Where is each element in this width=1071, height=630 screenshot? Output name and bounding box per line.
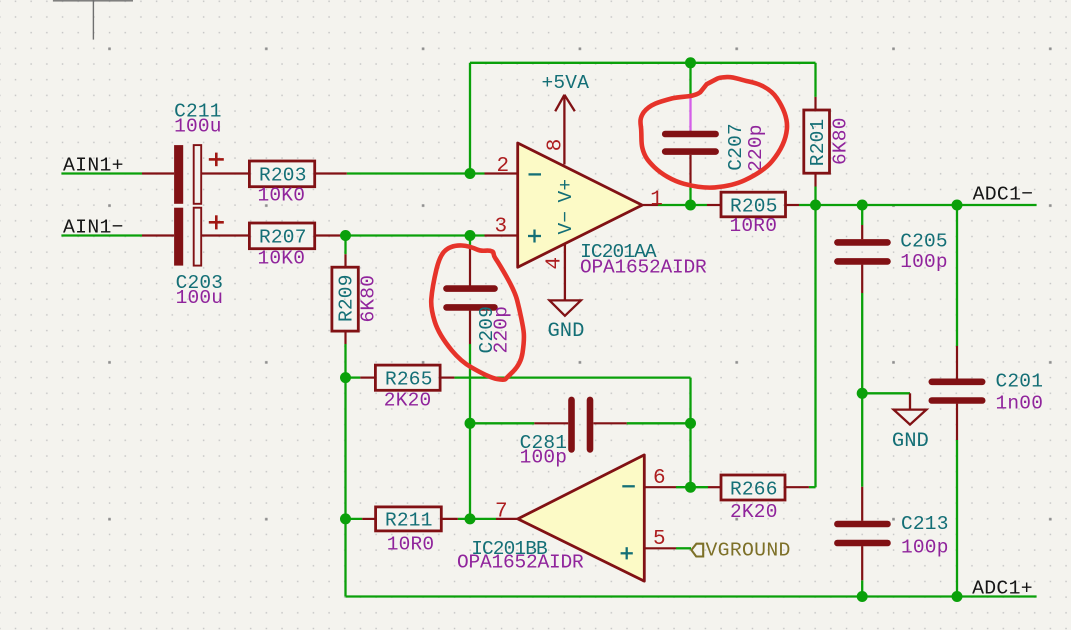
pin C209 top (469, 249, 471, 286)
wire vertical R266 to ADC1- (814, 205, 816, 487)
svg-text:+5VA: +5VA (542, 72, 590, 94)
svg-text:100u: 100u (176, 287, 224, 309)
pin R211 left (362, 518, 375, 520)
svg-text:R266: R266 (730, 479, 778, 501)
junction pin1 / C207 (685, 200, 696, 211)
junction pin6 / R265 (685, 482, 696, 493)
pin C281 right (593, 422, 626, 424)
op-amp U1 IC201AA (495, 72, 708, 343)
wire pin3 down to C209 (469, 236, 471, 249)
pin R265 left (360, 377, 375, 379)
svg-text:1: 1 (650, 189, 663, 212)
svg-text:GND: GND (892, 430, 929, 453)
resistor R207 (249, 223, 314, 270)
capacitor C281 (horizontal) (520, 400, 590, 469)
op-amp U2 IC201BB (457, 455, 666, 581)
svg-text:R207: R207 (259, 227, 307, 249)
pin R266 left (708, 486, 721, 488)
svg-text:ADC1−: ADC1− (973, 184, 1034, 206)
wire R207 to pin3 (346, 234, 485, 236)
junction C281 right (685, 418, 696, 429)
capacitor C205 (837, 230, 947, 273)
svg-text:5: 5 (653, 528, 666, 551)
resistor R211 (376, 507, 442, 556)
svg-text:10K0: 10K0 (258, 184, 306, 206)
svg-text:8: 8 (545, 139, 568, 152)
pin C281 left (534, 422, 568, 424)
svg-text:R201: R201 (807, 119, 829, 167)
svg-text:AIN1+: AIN1+ (63, 154, 124, 176)
pin C205 bottom (861, 265, 863, 293)
wire R211 left (346, 518, 363, 520)
wire top horizontal (470, 62, 816, 64)
junction pin3 / C209 (465, 230, 476, 241)
resistor R205 (721, 192, 786, 237)
pin opamp 2 (485, 172, 518, 174)
pin R266 right (785, 486, 809, 488)
svg-text:6K80: 6K80 (358, 275, 380, 323)
svg-text:100p: 100p (520, 447, 568, 469)
pin C211 right / R203 left (201, 172, 249, 174)
pin R265 right (440, 377, 454, 379)
annotation circle around C209 (431, 245, 524, 379)
svg-text:220p: 220p (491, 306, 513, 354)
wire pin5 to VGROUND (676, 547, 691, 549)
pin C207 bottom (689, 155, 691, 187)
pin 8 stem and +5VA power symbol (555, 95, 575, 165)
svg-text:100p: 100p (900, 251, 948, 273)
capacitor C203 (polarized) (174, 208, 224, 309)
wire C281 left (470, 422, 534, 424)
wire R201 bottom green (814, 187, 816, 206)
capacitor C209 (447, 289, 513, 354)
wire pin6 to R266 (676, 486, 708, 488)
wire R265 right to corner (454, 376, 690, 378)
svg-text:V+: V+ (555, 179, 577, 203)
pin opamp 7 (496, 518, 518, 520)
capacitor C211 (polarized) (174, 101, 224, 204)
wire above C207 green part (689, 63, 691, 94)
resistor R266 (721, 475, 785, 523)
junction GND tap / C205 rail (857, 388, 868, 399)
wire R209 bottom to bottom rail (344, 344, 346, 597)
wire R201 top green (814, 63, 816, 97)
svg-text:10R0: 10R0 (387, 534, 435, 556)
resistor R265 (375, 365, 440, 411)
wire C205 bottom to C213 (861, 293, 863, 487)
svg-text:C201: C201 (996, 370, 1044, 392)
svg-text:4: 4 (544, 257, 567, 270)
svg-text:3: 3 (495, 216, 508, 239)
capacitor C213 (837, 513, 948, 559)
pin R211 right (441, 518, 458, 520)
svg-text:ADC1+: ADC1+ (972, 577, 1033, 599)
wire R205 to ADC1- (799, 204, 1037, 206)
junction pin7 / C209 rail (465, 513, 476, 524)
svg-text:220p: 220p (745, 124, 767, 172)
wire vertical R265 to pin6 (689, 378, 691, 488)
wire GND tap (862, 392, 910, 394)
wire C201 bottom green (956, 440, 958, 597)
pin R209 top (344, 254, 346, 267)
junction C281 left / C209 rail (465, 418, 476, 429)
sheet marker top-left (53, 0, 133, 40)
junction C205 / ADC1- (857, 200, 868, 211)
wire magenta highlighted above C207 (689, 94, 691, 131)
pin opamp 1 (643, 204, 658, 206)
wire AIN1+ to C211 (61, 172, 142, 174)
wire vertical feedback left (469, 63, 471, 174)
pin C211 left (142, 172, 174, 174)
pin C201 top (956, 346, 958, 379)
wire R265 left (346, 376, 361, 378)
annotation circle around C207 (640, 77, 787, 188)
junction pin2 / feedback (465, 168, 476, 179)
svg-text:AIN1−: AIN1− (63, 216, 124, 238)
pin R207 right (315, 234, 347, 236)
junction C213 / ADC1+ (857, 591, 868, 602)
junction C201 / ADC1+ (952, 591, 963, 602)
capacitor C201 (932, 370, 1043, 414)
wire bottom rail ADC1+ (346, 595, 1037, 597)
pin 4 stem and GND symbol (550, 245, 581, 316)
wire R209 top (344, 236, 346, 255)
pin C207 top (under magenta) (689, 129, 691, 132)
svg-text:R203: R203 (259, 165, 307, 187)
wire C205 top green (861, 205, 863, 225)
pin R209 bottom (344, 331, 346, 344)
pin opamp 3 (485, 234, 518, 236)
inner markings (621, 486, 635, 559)
svg-text:6K80: 6K80 (830, 117, 852, 165)
svg-text:OPA1652AIDR: OPA1652AIDR (580, 257, 707, 279)
svg-text:10R0: 10R0 (730, 215, 778, 237)
pin opamp 6 (644, 486, 676, 488)
resistor R201 (vertical) (804, 110, 852, 173)
pin C205 top (861, 225, 863, 239)
pin opamp 5 (644, 547, 676, 549)
svg-text:6: 6 (653, 467, 666, 490)
wire AIN1- to C203 (61, 234, 142, 236)
resistor R209 (vertical) (332, 267, 380, 331)
svg-text:10K0: 10K0 (258, 248, 306, 270)
capacitor C207 (665, 123, 767, 172)
svg-text:7: 7 (495, 501, 508, 524)
wire R266 right corner up (809, 486, 816, 488)
inner markings (528, 174, 541, 242)
pin C203 left (142, 234, 174, 236)
junction R201 / ADC1- (810, 200, 821, 211)
pin R205 right (786, 204, 800, 206)
wire C213 bottom green (861, 580, 863, 596)
svg-text:R211: R211 (385, 510, 433, 532)
svg-text:R265: R265 (385, 368, 433, 390)
svg-text:C205: C205 (900, 230, 948, 252)
wire C209 bottom down to pin7 row (469, 344, 471, 519)
svg-text:OPA1652AIDR: OPA1652AIDR (457, 552, 584, 574)
svg-text:100u: 100u (174, 116, 222, 138)
wire C201 top green (956, 205, 958, 346)
svg-text:2K20: 2K20 (384, 390, 432, 412)
wire C207 bottom green (689, 187, 691, 205)
resistor R203 (249, 161, 314, 206)
pin R201 top (814, 97, 816, 110)
junction pin3 / R209 (340, 230, 351, 241)
wire R203 to pin2 (347, 172, 485, 174)
pin C209 bottom (469, 311, 471, 344)
pin C213 bottom (861, 546, 863, 580)
wire R211 right to pin7 (458, 518, 496, 520)
junction R265 / R209 rail (340, 372, 351, 383)
svg-text:VGROUND: VGROUND (706, 540, 791, 562)
global label VGROUND (691, 540, 790, 562)
svg-text:V−: V− (555, 211, 577, 235)
svg-text:100p: 100p (901, 537, 949, 559)
pin R205 left (707, 204, 721, 206)
svg-text:R209: R209 (336, 274, 358, 322)
svg-text:2K20: 2K20 (730, 501, 778, 523)
wire C281 right (627, 422, 691, 424)
svg-text:2: 2 (497, 155, 510, 178)
junction R211 / rail (340, 513, 351, 524)
pin C201 bottom (956, 404, 958, 440)
power symbol GND near C201 (892, 393, 929, 453)
pin R203 right (315, 172, 347, 174)
svg-text:C207: C207 (725, 123, 747, 171)
wire pin1 to R205 (658, 204, 707, 206)
junction top wire / C207 (685, 57, 696, 68)
svg-text:1n00: 1n00 (996, 392, 1044, 414)
pin C203 right / R207 left (201, 234, 249, 236)
pin C213 top (861, 487, 863, 521)
svg-text:C213: C213 (901, 513, 949, 535)
pin R201 bottom (814, 173, 816, 186)
svg-text:GND: GND (548, 320, 585, 343)
junction C201 / ADC1- (952, 200, 963, 211)
